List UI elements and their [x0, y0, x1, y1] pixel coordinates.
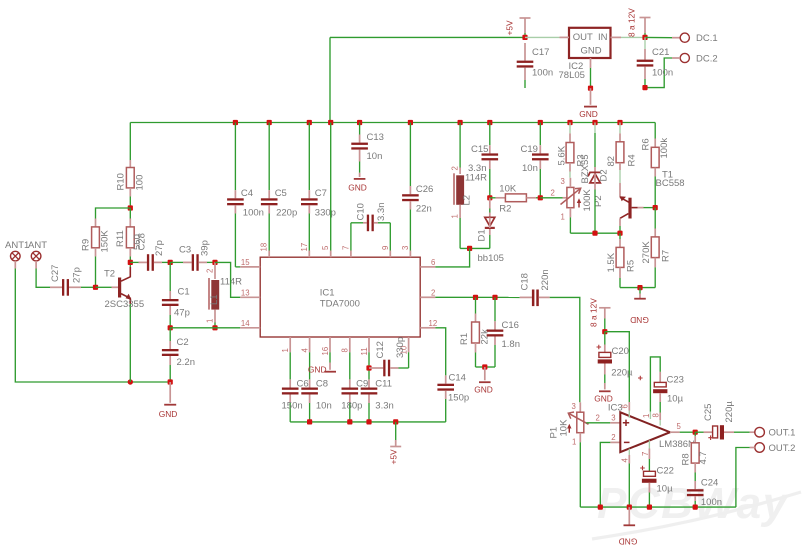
ground GND under IC2: [579, 88, 598, 119]
+5V supply symbol top: [504, 18, 530, 37]
svg-text:7: 7: [641, 452, 650, 456]
inductor L2 114R: [450, 123, 487, 249]
svg-text:T2: T2: [104, 269, 115, 280]
node IC2 GND junction: [588, 86, 593, 91]
svg-text:4: 4: [300, 348, 309, 353]
svg-text:C2: C2: [177, 337, 189, 348]
capacitor C20 220u: [597, 332, 634, 383]
svg-text:17: 17: [300, 243, 309, 252]
wire pin12 to C14: [435, 328, 445, 376]
ground GND under R1: [474, 367, 493, 395]
wire IC3 pin2 input: [600, 433, 620, 507]
svg-text:C16: C16: [502, 320, 519, 331]
node C1/C2 junction: [168, 325, 173, 330]
svg-text:100k: 100k: [659, 138, 670, 159]
capacitor C15 3.3n: [468, 123, 498, 198]
node ground junction left: [168, 379, 173, 384]
diode D1 bb105: [477, 198, 504, 264]
capacitor C21 100n: [637, 37, 673, 87]
transistor T2 2SC3355: [96, 262, 145, 382]
node pin6 riser junction: [467, 246, 472, 251]
svg-text:R9: R9: [81, 239, 92, 251]
wire C18 to P1: [550, 297, 580, 402]
node R5/R7 ground junction: [637, 285, 642, 290]
diode D2 BZX55 zener: [580, 123, 610, 234]
wire main bus: [130, 122, 655, 124]
svg-text:3: 3: [611, 414, 615, 423]
svg-text:150K: 150K: [100, 230, 111, 253]
svg-text:2: 2: [611, 433, 615, 442]
svg-text:3.3n: 3.3n: [376, 203, 387, 222]
node +5V/C17 junction: [522, 35, 527, 40]
capacitor C11 3.3n: [361, 352, 394, 422]
wire IC2 GND down: [590, 68, 592, 88]
wire bus to pin5: [330, 123, 332, 251]
svg-text:BC558: BC558: [656, 178, 685, 189]
capacitor C23 10u: [638, 372, 684, 426]
svg-text:2: 2: [205, 269, 214, 273]
svg-text:1.8n: 1.8n: [502, 339, 521, 350]
capacitor C3 39p: [170, 240, 215, 271]
svg-text:9: 9: [381, 246, 390, 250]
svg-text:C17: C17: [532, 47, 549, 58]
ground GND audio mirrored: [619, 507, 638, 546]
node T2 collector junction: [128, 260, 133, 265]
svg-text:bb105: bb105: [478, 253, 504, 264]
svg-text:1: 1: [572, 438, 576, 447]
svg-text:C4: C4: [241, 188, 253, 199]
svg-text:1: 1: [281, 348, 290, 352]
wire pin14 row: [170, 327, 215, 329]
node audio supply junction: [602, 329, 607, 334]
svg-text:5: 5: [677, 422, 682, 431]
wire ANT1 ground run: [15, 269, 170, 383]
svg-text:C21: C21: [652, 47, 669, 58]
svg-text:100K: 100K: [582, 189, 593, 212]
antenna ANT1: [5, 240, 29, 269]
svg-text:R11: R11: [115, 230, 126, 247]
svg-text:1: 1: [205, 319, 214, 323]
svg-text:C25: C25: [703, 404, 714, 421]
svg-text:11: 11: [360, 347, 369, 355]
svg-text:2.2n: 2.2n: [177, 357, 196, 368]
svg-text:220n: 220n: [540, 269, 551, 290]
node R1 junction: [473, 295, 478, 300]
svg-text:8 a 12V: 8 a 12V: [589, 298, 599, 327]
wire ANT to C27: [36, 269, 50, 288]
svg-text:C28: C28: [137, 233, 148, 250]
svg-text:14: 14: [241, 319, 250, 328]
svg-text:22n: 22n: [416, 204, 432, 215]
resistor R7 270K: [641, 208, 672, 288]
svg-text:39p: 39p: [200, 240, 211, 256]
svg-text:3: 3: [561, 177, 565, 186]
svg-text:27p: 27p: [154, 240, 165, 256]
svg-text:C13: C13: [367, 132, 384, 143]
svg-text:IN: IN: [598, 32, 608, 43]
svg-text:C24: C24: [701, 478, 718, 489]
watermark PCBWay: [592, 479, 801, 539]
svg-text:8: 8: [341, 348, 350, 352]
resistor R3 5.6K: [557, 123, 587, 178]
svg-text:220µ: 220µ: [724, 401, 735, 423]
capacitor C19 10n: [521, 123, 549, 198]
resistor R4 82: [606, 123, 638, 198]
svg-text:220µ: 220µ: [611, 368, 633, 379]
pin 6 stub IC3: [621, 402, 630, 418]
svg-text:8 a 12V: 8 a 12V: [627, 8, 637, 37]
wire audio ground bus: [580, 506, 736, 508]
node C21/DC.2 junction: [642, 85, 647, 90]
wire wiper to IC3 pin3: [586, 414, 620, 423]
capacitor C14 150p: [437, 373, 469, 422]
connector DC.1: [672, 33, 718, 44]
svg-text:R10: R10: [116, 173, 127, 190]
wire to DC.1: [645, 36, 672, 38]
node C15/R2/D1 junction: [487, 195, 492, 200]
wire pin2 row: [435, 296, 519, 298]
capacitor C7 330p: [301, 123, 336, 251]
svg-text:100n: 100n: [532, 68, 553, 79]
svg-text:L2: L2: [462, 195, 473, 206]
svg-text:C26: C26: [416, 184, 433, 195]
capacitor C1 47p: [162, 262, 190, 327]
svg-text:GND: GND: [619, 537, 638, 547]
svg-text:150n: 150n: [282, 401, 303, 412]
svg-text:4.7: 4.7: [698, 451, 709, 464]
node L1 bottom junction: [212, 325, 217, 330]
ground GND pin16: [308, 352, 336, 374]
op-amp IC2 78L05 regulator: [559, 28, 622, 81]
pin 5 output IC3: [670, 422, 695, 432]
svg-text:5.6K: 5.6K: [557, 145, 568, 165]
svg-text:27p: 27p: [72, 267, 83, 283]
wire R5/R7 bottom: [620, 287, 655, 289]
svg-text:10µ: 10µ: [657, 484, 674, 495]
svg-text:10K: 10K: [559, 419, 570, 437]
wire bottom bus IC1: [290, 421, 446, 423]
connector OUT.1: [750, 427, 796, 438]
wire OUT.2 to ground bus: [736, 448, 750, 508]
svg-text:6: 6: [621, 404, 630, 408]
resistor R5 1.5K: [606, 233, 637, 287]
capacitor C4 100n: [227, 123, 264, 267]
svg-text:C10: C10: [356, 203, 367, 220]
svg-text:2: 2: [596, 414, 600, 423]
svg-text:R5: R5: [626, 260, 637, 272]
capacitor C16 1.8n: [485, 297, 520, 367]
svg-text:DC.2: DC.2: [696, 54, 718, 65]
svg-text:3: 3: [401, 246, 410, 250]
svg-text:7: 7: [341, 246, 350, 250]
resistor R9 150K: [81, 219, 111, 288]
svg-text:ANT1: ANT1: [5, 240, 29, 251]
capacitor C13 10n: [351, 123, 384, 173]
node C28/C1 junction: [168, 260, 173, 265]
svg-text:LM386N: LM386N: [659, 439, 695, 450]
svg-text:D1: D1: [477, 229, 488, 241]
svg-text:10K: 10K: [499, 184, 517, 195]
capacitor C6 150n: [282, 352, 309, 422]
node C16 junction: [492, 295, 497, 300]
resistor R1 22k: [459, 297, 491, 367]
svg-text:IC1: IC1: [320, 288, 335, 299]
ground GND mirrored R5/R7: [630, 288, 649, 325]
supply 8 a 12V audio: [589, 298, 611, 332]
node R10 bottom junction: [128, 205, 133, 210]
svg-text:BZX55: BZX55: [580, 154, 591, 183]
node T1 base junction: [653, 205, 658, 210]
svg-text:82: 82: [606, 156, 617, 167]
svg-text:DC.1: DC.1: [696, 33, 718, 44]
svg-text:114R: 114R: [465, 173, 487, 184]
pin stubs IC1 left: [240, 258, 260, 328]
svg-text:2: 2: [450, 166, 459, 170]
resistor R8 4.7: [681, 432, 710, 481]
capacitor C9 180p: [341, 352, 368, 422]
svg-text:220p: 220p: [276, 208, 297, 219]
svg-text:10n: 10n: [522, 163, 538, 174]
capacitor C25 220u: [695, 401, 749, 440]
resistor R6 100k: [641, 123, 671, 208]
wire junction to pin13: [215, 262, 240, 297]
node D2 bottom junction: [592, 231, 597, 236]
svg-text:150p: 150p: [448, 393, 469, 404]
pin stubs IC1 right: [420, 258, 437, 328]
antenna ANT: [28, 240, 47, 269]
capacitor C10 3.3n bridge pins 7-9: [351, 203, 390, 251]
capacitor C28 27p: [130, 240, 170, 271]
svg-text:100n: 100n: [652, 68, 673, 79]
capacitor C24 100n: [687, 478, 722, 509]
svg-text:13: 13: [241, 288, 250, 297]
op-amp IC1 TDA7000: [260, 257, 420, 337]
wire C23 gain loop pins 1-8: [642, 357, 660, 419]
svg-text:3.3n: 3.3n: [468, 163, 487, 174]
wire +5V down to bus: [329, 37, 331, 122]
svg-text:5: 5: [321, 245, 330, 250]
pin stubs IC1 bottom: [281, 337, 409, 356]
svg-text:1: 1: [561, 213, 565, 222]
svg-text:330p: 330p: [315, 208, 336, 219]
svg-text:GND: GND: [580, 46, 601, 57]
node bus junctions: [233, 120, 623, 125]
svg-text:C22: C22: [657, 466, 674, 477]
node T1 collector junction: [617, 231, 622, 236]
node T2 emitter/bottom junction: [128, 379, 133, 384]
svg-text:GND: GND: [348, 183, 367, 193]
svg-text:270K: 270K: [641, 241, 652, 264]
svg-text:1: 1: [642, 414, 651, 418]
supply +5V bottom: [388, 422, 401, 465]
svg-text:47p: 47p: [174, 308, 190, 319]
connector OUT.2: [750, 443, 796, 454]
svg-text:C11: C11: [375, 379, 392, 390]
svg-text:2: 2: [431, 288, 435, 297]
svg-text:ANT: ANT: [28, 240, 47, 251]
svg-text:12: 12: [429, 319, 438, 328]
node R2/C19 wiper junction: [538, 195, 543, 200]
ground GND bottom left: [159, 382, 178, 419]
svg-text:16: 16: [321, 347, 330, 356]
svg-text:+5V: +5V: [388, 449, 398, 465]
wire L2 to D1 bottom: [460, 247, 490, 249]
svg-text:C7: C7: [315, 188, 327, 199]
svg-text:R6: R6: [641, 138, 652, 150]
capacitor C8 10n: [301, 352, 331, 422]
svg-text:+5V: +5V: [504, 20, 514, 36]
svg-text:C1: C1: [178, 287, 190, 298]
svg-text:15: 15: [241, 258, 250, 267]
svg-text:R1: R1: [459, 333, 470, 345]
svg-text:3: 3: [572, 402, 576, 411]
svg-text:GND: GND: [474, 385, 493, 395]
wire wiper to P2: [540, 197, 562, 199]
svg-text:1.5K: 1.5K: [606, 252, 617, 272]
supply 8 a 12V symbol top: [627, 8, 651, 38]
svg-text:C27: C27: [50, 265, 61, 282]
svg-text:C23: C23: [667, 375, 684, 386]
svg-text:GND: GND: [579, 109, 598, 119]
svg-text:18: 18: [260, 243, 269, 252]
connector DC.2: [672, 53, 718, 64]
capacitor C22 10u: [640, 466, 674, 508]
inductor L1 114R: [205, 262, 242, 327]
ground GND under C13: [348, 173, 367, 193]
svg-text:OUT: OUT: [573, 32, 593, 43]
svg-text:10µ: 10µ: [667, 394, 684, 405]
wire IC2 IN to 12V node: [621, 36, 645, 38]
wire R10 to R9: [96, 208, 131, 219]
svg-text:3.3n: 3.3n: [375, 401, 394, 412]
node 12V junction: [642, 35, 647, 40]
svg-text:GND: GND: [159, 409, 178, 419]
svg-text:L1: L1: [209, 294, 220, 305]
node output junction: [693, 430, 698, 435]
wire +5V rail top: [330, 36, 525, 38]
capacitor C18 220n: [520, 269, 552, 306]
capacitor C26 22n: [402, 123, 433, 251]
potentiometer P1 10K: [549, 402, 589, 507]
svg-text:C14: C14: [449, 373, 466, 384]
node C3/L1 junction: [212, 260, 217, 265]
svg-text:78L05: 78L05: [559, 70, 585, 81]
svg-text:GND: GND: [630, 315, 649, 325]
node T2 base junction: [93, 285, 98, 290]
capacitor C27 27p: [50, 265, 96, 296]
svg-text:100: 100: [135, 175, 146, 191]
svg-text:C12: C12: [375, 341, 386, 358]
svg-text:R8: R8: [681, 453, 692, 465]
svg-text:R2: R2: [499, 204, 511, 215]
capacitor C12 330p bridge pins 11-10: [369, 337, 409, 376]
svg-text:C15: C15: [471, 144, 488, 155]
capacitor C17 100n: [517, 43, 553, 88]
svg-text:2SC3355: 2SC3355: [105, 299, 145, 310]
svg-text:10n: 10n: [316, 401, 332, 412]
wire C4 to pin15: [235, 266, 240, 268]
capacitor C2 2.2n: [162, 328, 195, 382]
pin 4 stub IC3 to ground bus: [621, 449, 630, 507]
svg-text:GND: GND: [308, 365, 327, 375]
pin stubs IC1 top: [260, 243, 411, 257]
svg-text:180p: 180p: [341, 401, 362, 412]
svg-text:C18: C18: [520, 273, 531, 290]
node audio bus junctions: [598, 505, 698, 510]
svg-text:C19: C19: [521, 144, 538, 155]
resistor R11 560: [115, 208, 148, 262]
transistor T1 BC558: [620, 170, 685, 234]
op-amp IC3 LM386N: [608, 403, 695, 453]
resistor R10 100: [116, 123, 146, 209]
wire supply to IC3 pin6: [605, 332, 630, 402]
wire pin6 to varicap: [435, 248, 469, 267]
svg-text:4: 4: [621, 458, 630, 463]
pin 7 stub IC3 to C22: [641, 440, 650, 471]
svg-text:R4: R4: [627, 154, 638, 166]
svg-text:C5: C5: [275, 188, 287, 199]
potentiometer P2 100K: [561, 177, 605, 233]
node R1/C16 ground junction: [482, 364, 487, 369]
wire P2 bottom row: [570, 232, 620, 234]
svg-text:C20: C20: [612, 346, 629, 357]
svg-text:D2: D2: [599, 169, 610, 181]
svg-text:8: 8: [652, 413, 661, 417]
svg-text:100n: 100n: [701, 497, 722, 508]
svg-text:2: 2: [551, 189, 555, 198]
svg-text:330p: 330p: [395, 337, 406, 358]
capacitor C5 220p: [261, 123, 297, 251]
svg-text:C8: C8: [316, 379, 328, 390]
svg-text:10n: 10n: [367, 151, 383, 162]
svg-text:6: 6: [431, 258, 435, 267]
ground GND under C20: [594, 383, 613, 404]
node C12 tap junction: [366, 365, 371, 370]
svg-text:OUT.2: OUT.2: [769, 443, 796, 454]
resistor R2 10K: [490, 184, 541, 215]
svg-text:R7: R7: [661, 250, 672, 262]
svg-text:OUT.1: OUT.1: [769, 428, 796, 439]
svg-text:100n: 100n: [243, 208, 264, 219]
svg-text:TDA7000: TDA7000: [320, 299, 360, 310]
svg-text:C3: C3: [179, 245, 191, 256]
wire to IC2 OUT: [525, 36, 560, 38]
wire DC.2 to C21 bottom: [645, 58, 672, 88]
svg-text:1: 1: [450, 214, 459, 218]
node bottom bus junctions: [307, 419, 398, 424]
